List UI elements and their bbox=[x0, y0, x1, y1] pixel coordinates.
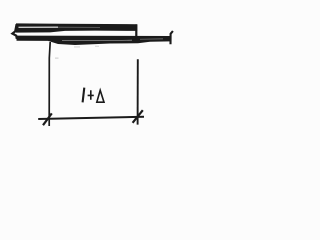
left extension line bbox=[49, 42, 50, 126]
left dimension tick bbox=[43, 113, 52, 125]
upper bar inner white line bbox=[19, 26, 59, 28]
faint scan specks bbox=[55, 46, 99, 59]
dimension line bbox=[38, 117, 144, 119]
label delta bbox=[97, 90, 104, 102]
right extension line bbox=[137, 59, 139, 124]
label + bbox=[88, 90, 94, 100]
right break mark bbox=[171, 31, 173, 44]
upper bar bbox=[16, 23, 137, 32]
right dimension tick bbox=[133, 110, 143, 123]
label l bbox=[83, 88, 85, 103]
lower bar inner white line bbox=[62, 39, 132, 41]
lower bar bbox=[17, 36, 171, 45]
right end cap of upper bar bbox=[135, 24, 137, 38]
left break mark bbox=[12, 24, 16, 39]
